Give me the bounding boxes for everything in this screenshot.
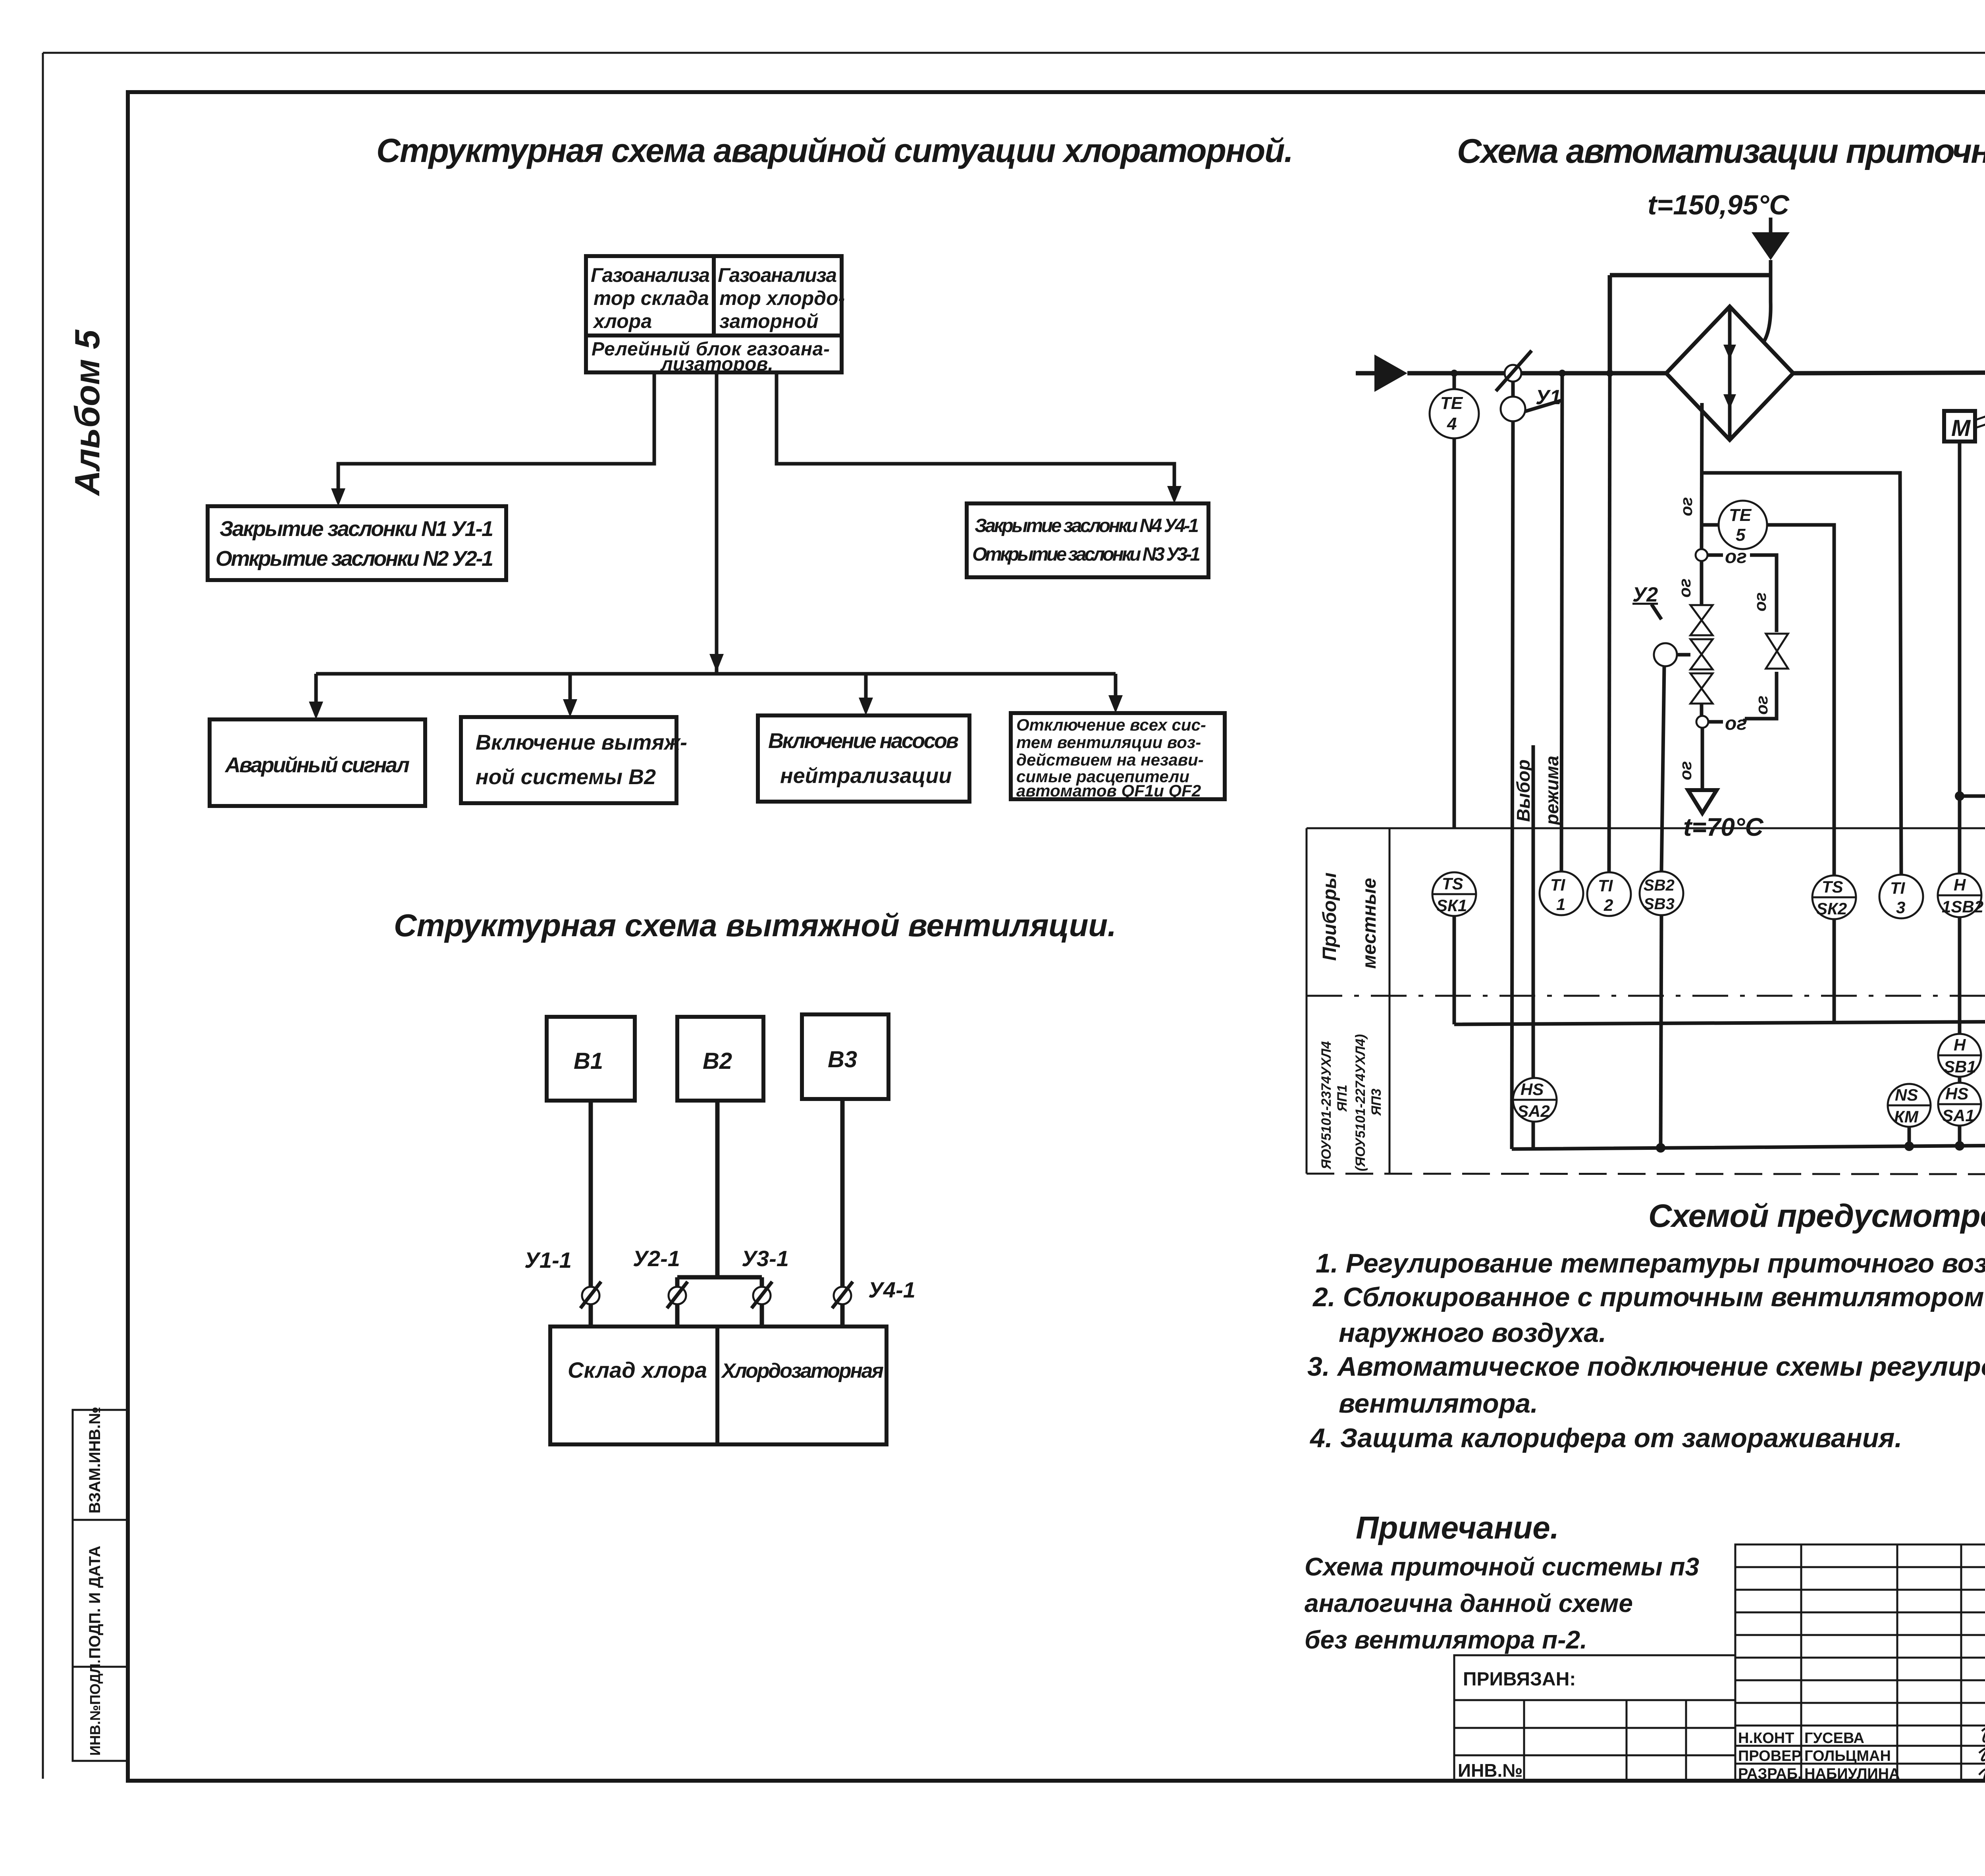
wire H/SB2 chain (1958, 917, 1962, 1146)
instrument HS/SA2 (1513, 1078, 1557, 1122)
signers names (1738, 1730, 1900, 1782)
svg-text:НS: НS (1945, 1084, 1968, 1103)
svg-text:ПРИВЯЗАН:: ПРИВЯЗАН: (1463, 1669, 1576, 1690)
svg-text:2. Сблокированное с приточным: 2. Сблокированное с приточным вентилятор… (1312, 1282, 1985, 1312)
svg-text:1: 1 (1556, 895, 1565, 914)
svg-text:тем вентиляции воз-: тем вентиляции воз- (1016, 733, 1201, 752)
svg-text:автоматов QF1и QF2: автоматов QF1и QF2 (1016, 781, 1201, 800)
svg-text:ог: ог (1725, 713, 1747, 734)
svg-text:Закрытие заслонки N4 У4-1: Закрытие заслонки N4 У4-1 (975, 515, 1199, 536)
svg-text:М: М (1951, 415, 1971, 441)
wire U2 line tail (1661, 915, 1661, 1148)
svg-text:Склад хлора: Склад хлора (568, 1357, 707, 1382)
fan B2 box (677, 1017, 763, 1101)
svg-text:Схемой предусмотрено.: Схемой предусмотрено. (1648, 1198, 1985, 1234)
svg-text:ТI: ТI (1598, 876, 1613, 895)
hot water supply arrow (1752, 218, 1790, 342)
svg-text:У4-1: У4-1 (868, 1277, 915, 1302)
svg-text:ГУСЕВА: ГУСЕВА (1804, 1730, 1864, 1747)
sensor TE5 (1702, 501, 1834, 876)
svg-text:В3: В3 (828, 1047, 857, 1072)
svg-text:SВ3: SВ3 (1644, 895, 1675, 913)
svg-text:3. Автоматическое подключение: 3. Автоматическое подключение схемы регу… (1307, 1352, 1985, 1382)
fan B3 box (802, 1014, 888, 1099)
wire TS/SK1 to bus1 (1453, 916, 1456, 1024)
sheet outer left line (42, 53, 44, 1779)
svg-text:Газоанализа: Газоанализа (718, 264, 837, 286)
svg-text:SА1: SА1 (1942, 1106, 1975, 1125)
sensor TE4 (1430, 373, 1479, 828)
svg-text:тор склада: тор склада (594, 287, 709, 309)
svg-text:тор хлордо-: тор хлордо- (719, 287, 845, 309)
air inlet arrow (1356, 355, 1407, 392)
neutralization pumps box (758, 715, 969, 802)
svg-text:хлора: хлора (592, 310, 652, 332)
svg-text:местные: местные (1359, 878, 1380, 969)
svg-text:ог: ог (1751, 592, 1769, 611)
svg-text:наружного воздуха.: наружного воздуха. (1339, 1318, 1606, 1348)
svg-text:ог: ог (1677, 497, 1696, 516)
sheet outer top line (43, 52, 1985, 54)
instrument H/SB1 (1938, 1034, 1981, 1077)
mode select wire (1561, 373, 1562, 872)
svg-text:ГОЛЬЦМАН: ГОЛЬЦМАН (1804, 1748, 1891, 1764)
svg-text:4: 4 (1447, 414, 1457, 434)
svg-text:SК1: SК1 (1436, 896, 1467, 915)
control valve group (1675, 561, 1713, 716)
svg-text:ЯОУ5101-2374УХЛ4: ЯОУ5101-2374УХЛ4 (1319, 1041, 1334, 1170)
svg-text:Структурная схема вытяжной ве: Структурная схема вытяжной вентиляции. (394, 908, 1116, 943)
shutdown box (1011, 713, 1225, 800)
svg-text:ог: ог (1675, 578, 1694, 598)
svg-text:Примечание.: Примечание. (1356, 1510, 1559, 1545)
bus to TI3 (1702, 473, 1901, 875)
instrument TI/3 (1879, 875, 1923, 918)
controller wire to M1 line (1960, 756, 1985, 796)
left damper action box (208, 506, 506, 580)
svg-text:ТI: ТI (1550, 875, 1566, 894)
shaft M1-P1 (1975, 391, 1985, 428)
svg-text:Отключение всех сис-: Отключение всех сис- (1016, 715, 1206, 734)
svg-text:ог: ог (1725, 546, 1747, 567)
left attribute column box (73, 1407, 128, 1761)
svg-text:Закрытие заслонки N1 У1-1: Закрытие заслонки N1 У1-1 (220, 517, 493, 541)
lower og node (1696, 713, 1747, 734)
svg-text:ной системы В2: ной системы В2 (476, 765, 656, 789)
svg-text:SВ2: SВ2 (1644, 877, 1675, 894)
svg-text:У2: У2 (1632, 583, 1658, 606)
svg-text:3: 3 (1896, 898, 1905, 917)
drop wire B (569, 674, 572, 705)
bypass valve (1766, 634, 1788, 669)
svg-text:НАБИУЛИНА: НАБИУЛИНА (1804, 1766, 1900, 1782)
instrument table frame (1307, 828, 1985, 1174)
main air duct (1407, 371, 1666, 376)
damper U4-1 (832, 1277, 915, 1308)
damper U2-1 (633, 1246, 688, 1308)
svg-text:Аварийный сигнал: Аварийный сигнал (224, 753, 410, 777)
svg-text:В2: В2 (703, 1048, 732, 1074)
svg-text:NS: NS (1895, 1085, 1918, 1104)
gas analyzer block (586, 256, 845, 375)
instrument TI/1 (1540, 871, 1583, 915)
svg-text:Включение насосов: Включение насосов (768, 729, 959, 753)
svg-text:ТЕ: ТЕ (1440, 393, 1463, 413)
svg-text:t=70°C: t=70°C (1683, 813, 1763, 841)
wire HS/SA2 tail (1532, 1122, 1535, 1149)
wire B2 down with split (677, 1101, 762, 1327)
svg-text:заторной: заторной (719, 310, 819, 332)
instrument TS/SK2 (1812, 875, 1856, 919)
svg-text:Включение вытяж-: Включение вытяж- (476, 731, 687, 754)
alarm box (210, 719, 425, 806)
bus2 wire (1512, 1116, 1985, 1149)
right damper action box (967, 503, 1208, 577)
titleblock approval grid (1735, 1544, 1985, 1782)
upper og node (1696, 546, 1747, 567)
svg-text:t=150,95°C: t=150,95°C (1648, 189, 1790, 220)
svg-text:РАЗРАБ.: РАЗРАБ. (1738, 1766, 1802, 1782)
wire to left damper box (338, 372, 654, 494)
svg-text:У1-1: У1-1 (524, 1247, 572, 1273)
svg-text:ТS: ТS (1822, 877, 1843, 896)
bypass branch wire (1750, 555, 1777, 632)
junction dots bus2 (1656, 1143, 1665, 1153)
drop wire C (864, 674, 868, 704)
heater diamond (1666, 307, 1793, 440)
wire B3 down (840, 1099, 845, 1327)
svg-text:2: 2 (1603, 896, 1613, 914)
svg-text:ИНВ.№ПОДЛ.: ИНВ.№ПОДЛ. (87, 1660, 103, 1756)
svg-text:НS: НS (1521, 1080, 1544, 1099)
svg-text:SВ1: SВ1 (1944, 1057, 1976, 1076)
svg-text:аналогична данной схеме: аналогична данной схеме (1305, 1589, 1633, 1618)
distribution wire (316, 672, 1116, 676)
svg-text:Н: Н (1954, 1035, 1966, 1054)
svg-text:лизаторов.: лизаторов. (660, 354, 773, 375)
drop wire D (1114, 674, 1118, 701)
damper U1 on duct (1496, 351, 1562, 421)
drop wire A (314, 674, 318, 708)
instrument TS/SK1 (1432, 872, 1476, 916)
svg-text:вентилятора.: вентилятора. (1339, 1388, 1538, 1419)
motor M1 (1944, 411, 1975, 442)
central wire down (715, 372, 719, 674)
svg-text:ТЕ: ТЕ (1729, 505, 1752, 525)
U2 wire down (1661, 666, 1664, 872)
svg-text:Альбом 5: Альбом 5 (67, 330, 107, 496)
svg-text:нейтрализации: нейтрализации (780, 764, 952, 788)
svg-text:1. Регулирование температуры п: 1. Регулирование температуры приточного … (1316, 1248, 1985, 1278)
instrument H/SB2 (1938, 873, 1983, 917)
junction dots on duct (1451, 370, 1458, 377)
exhaust system B2 box (461, 717, 687, 803)
svg-text:ЯП3: ЯП3 (1369, 1089, 1384, 1116)
svg-text:без вентилятора п-2.: без вентилятора п-2. (1305, 1625, 1587, 1654)
instrument TI/2 (1587, 872, 1631, 916)
bypass branch lower wire (1745, 672, 1777, 719)
svg-text:Схема автоматизации приточной: Схема автоматизации приточной системы п1… (1457, 132, 1985, 170)
svg-text:4. Защита калорифера от зам: 4. Защита калорифера от замораживания. (1309, 1423, 1902, 1453)
svg-text:У3-1: У3-1 (742, 1246, 789, 1271)
svg-text:режима: режима (1542, 756, 1562, 826)
svg-text:В1: В1 (574, 1048, 603, 1074)
table row labels (1319, 872, 1384, 1171)
damper U3-1 (742, 1246, 789, 1308)
svg-text:ПРОВЕР.: ПРОВЕР. (1738, 1748, 1804, 1764)
svg-text:Структурная схема аварийной си: Структурная схема аварийной ситуации хло… (376, 132, 1293, 169)
wire to right damper box (777, 372, 1174, 492)
svg-text:Открытие заслонки N3 У3-1: Открытие заслонки N3 У3-1 (972, 544, 1201, 565)
svg-text:ПОДП. И ДАТА: ПОДП. И ДАТА (86, 1546, 104, 1659)
svg-text:5: 5 (1736, 525, 1746, 545)
heater return outlet (1676, 728, 1763, 841)
instrument HS/SA1 (1938, 1083, 1981, 1126)
instrument SB2/SB3 (1640, 871, 1683, 915)
svg-text:ТS: ТS (1442, 874, 1463, 893)
M1 wire down (1958, 442, 1962, 873)
svg-text:ог: ог (1752, 696, 1771, 715)
riser to heat supply (1609, 275, 1771, 873)
svg-text:ИНВ.№: ИНВ.№ (1458, 1760, 1523, 1781)
fan B1 box (547, 1017, 635, 1101)
svg-text:ВЗАМ.ИНВ.№: ВЗАМ.ИНВ.№ (86, 1407, 104, 1514)
svg-text:Н: Н (1954, 875, 1966, 894)
svg-text:Газоанализа: Газоанализа (591, 264, 710, 286)
svg-text:ТI: ТI (1890, 879, 1906, 897)
svg-text:ЯП1: ЯП1 (1335, 1085, 1350, 1112)
svg-text:Хлордозаторная: Хлордозаторная (721, 1359, 884, 1382)
svg-text:ог: ог (1676, 761, 1695, 780)
svg-text:Выбор: Выбор (1513, 760, 1534, 822)
rooms box (550, 1327, 887, 1444)
svg-text:1SВ2: 1SВ2 (1942, 897, 1983, 916)
svg-text:Приборы: Приборы (1319, 872, 1340, 961)
titleblock left part (1454, 1655, 1735, 1782)
svg-text:действием на незави-: действием на незави- (1016, 750, 1204, 769)
svg-text:SК2: SК2 (1816, 899, 1847, 918)
svg-text:Открытие заслонки N2 У2-1: Открытие заслонки N2 У2-1 (216, 547, 493, 571)
wire TS/SK2 to bus1 (1833, 919, 1836, 1023)
bus1 wire to VT (1454, 1020, 1985, 1075)
mode select stub wire (1532, 745, 1535, 1079)
instrument NS/KM (1888, 1084, 1931, 1127)
svg-text:У2-1: У2-1 (633, 1246, 680, 1271)
svg-text:Н.КОНТ: Н.КОНТ (1738, 1730, 1794, 1747)
U1 wire down (1512, 421, 1513, 1149)
signatures (1979, 1728, 1985, 1782)
svg-text:КМ: КМ (1894, 1107, 1919, 1126)
svg-text:(ЯОУ5101-2274УХЛ4): (ЯОУ5101-2274УХЛ4) (1353, 1034, 1368, 1171)
wire B1 down (589, 1101, 593, 1327)
wire NS/KM tail (1908, 1127, 1911, 1146)
svg-text:Схема приточной системы п3: Схема приточной системы п3 (1305, 1552, 1699, 1581)
heater return line og (1702, 403, 1702, 549)
svg-text:SА2: SА2 (1517, 1102, 1550, 1120)
valve actuator U2 (1632, 583, 1690, 666)
damper U1-1 (524, 1247, 601, 1308)
